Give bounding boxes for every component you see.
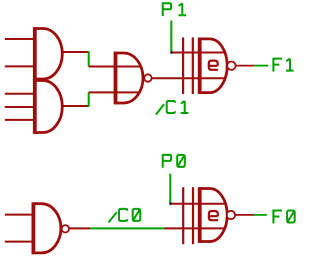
U1A input pin 2 bbox=[5, 65, 35, 67]
wire P0 bbox=[169, 174, 171, 203]
wire P1 bbox=[170, 21, 172, 52]
U5 xor input bar 1 bbox=[182, 187, 184, 244]
U3 xor input bar 2 bbox=[192, 37, 194, 94]
XNOR gate U3 body bbox=[200, 38, 227, 95]
AND gate U1B body bbox=[35, 79, 63, 134]
U3 xor input bar 1 bbox=[182, 37, 184, 94]
U2 input pin 2 bbox=[89, 91, 140, 93]
label /C0 bbox=[109, 209, 141, 223]
U1B output pin bbox=[62, 105, 89, 107]
U3 output bubble bbox=[227, 61, 235, 69]
U1B input pin 3 bbox=[5, 119, 35, 121]
U5 xor input bar 2 bbox=[192, 187, 194, 244]
label F0 bbox=[273, 211, 294, 224]
U2 output bubble bbox=[144, 74, 151, 81]
label /C1 bbox=[156, 101, 189, 115]
wire F1 bbox=[254, 65, 268, 67]
label P1 bbox=[163, 3, 186, 16]
U1B input pin 2 bbox=[5, 106, 35, 108]
wire U1B out to U2 in bbox=[88, 92, 90, 106]
U2 input pin 1 bbox=[89, 66, 141, 68]
label P0 bbox=[163, 155, 185, 168]
U4 output pin bbox=[69, 227, 90, 229]
U3 input pin (P1) bbox=[171, 52, 225, 54]
wire /C0 net bbox=[90, 227, 165, 229]
U2 output pin / U3 input pin bbox=[152, 77, 225, 79]
wire U1A out to U2 in bbox=[88, 51, 90, 66]
wire F0 bbox=[254, 214, 267, 216]
junction P1 bbox=[170, 51, 172, 53]
label F1 bbox=[273, 59, 293, 72]
U1B input pin 1 bbox=[5, 93, 35, 95]
AND gate U1A body bbox=[35, 27, 63, 80]
U1A input pin 1 bbox=[5, 38, 35, 40]
U5 label e bbox=[209, 211, 218, 220]
U5 input pin (P0) bbox=[170, 203, 225, 205]
U5 output pin bbox=[235, 214, 254, 216]
NAND gate U4 body bbox=[33, 202, 61, 254]
XNOR gate U5 body bbox=[200, 187, 228, 243]
U3 label e bbox=[209, 61, 218, 70]
U5 input pin (C0) bbox=[165, 227, 225, 229]
junction P0 bbox=[169, 202, 171, 204]
U4 input pin 2 bbox=[5, 241, 34, 243]
U4 output bubble bbox=[62, 225, 69, 232]
U1A output pin bbox=[62, 51, 89, 53]
U4 input pin 1 bbox=[5, 214, 34, 216]
U3 output pin bbox=[235, 65, 254, 67]
U5 output bubble bbox=[227, 211, 235, 219]
NAND gate U2 body bbox=[116, 52, 144, 105]
